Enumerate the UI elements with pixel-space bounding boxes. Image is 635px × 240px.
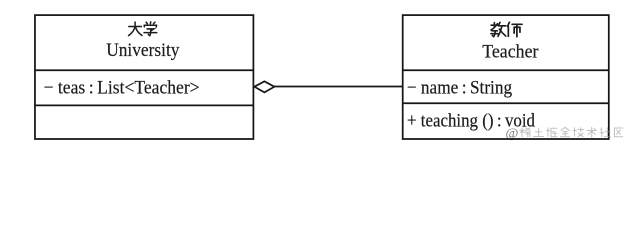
divider University attributes/operations [34, 104, 254, 106]
svg-text:@: @ [506, 127, 519, 142]
watermark @稀土掘金技术社区 [506, 127, 623, 142]
watermark 术 [587, 127, 596, 137]
divider University header/attributes [34, 69, 254, 71]
watermark 土 [534, 128, 544, 137]
watermark 稀 [520, 128, 531, 137]
wire association line [274, 86, 402, 88]
class name 教 (hand-drawn glyph) [491, 22, 506, 36]
class box Teacher (outer rect) [403, 15, 609, 139]
watermark 掘 [547, 128, 557, 137]
divider Teacher header/attributes [403, 69, 609, 71]
aggregation diamond [254, 81, 274, 92]
svg-text:University: University [106, 40, 180, 61]
watermark 区 [614, 128, 622, 137]
class name 学 (hand-drawn glyph) [144, 22, 157, 36]
class box University (outer rect) [35, 15, 253, 139]
watermark 技 [573, 128, 584, 137]
svg-text:− name : String: − name : String [407, 77, 513, 98]
watermark 金 [561, 127, 570, 136]
divider Teacher attributes/operations [403, 102, 609, 104]
svg-text:− teas : List<Teacher>: − teas : List<Teacher> [44, 77, 200, 98]
watermark 社 [600, 128, 611, 137]
class name 师 (hand-drawn glyph) [508, 22, 522, 37]
class name 大 (hand-drawn glyph) [129, 22, 143, 36]
svg-text:Teacher: Teacher [482, 42, 539, 63]
